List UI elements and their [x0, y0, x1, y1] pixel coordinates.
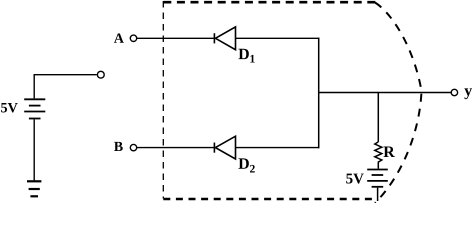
terminal B (open circle) — [130, 144, 136, 150]
diode D1 — [214, 27, 235, 50]
diode D2 — [214, 136, 235, 159]
dashed enclosure right arc — [375, 3, 422, 204]
wire D1 anode to bus — [236, 37, 320, 39]
dashed enclosure bottom edge — [163, 198, 372, 201]
wire B to D2 cathode — [137, 147, 215, 149]
wire bus to output y — [319, 92, 451, 94]
terminal A (open circle) — [130, 35, 136, 41]
junction: output wire to resistor branch — [377, 93, 379, 142]
wire battery negative to ground — [33, 119, 35, 180]
terminal y (open circle) — [451, 89, 457, 95]
wire A to D1 cathode — [137, 37, 215, 39]
dashed enclosure top edge — [163, 1, 376, 4]
terminal (left battery output, open circle) — [97, 71, 104, 78]
ground (left battery) — [27, 181, 41, 196]
wire D2 anode to bus — [236, 147, 320, 149]
node B label — [114, 142, 123, 151]
battery B1 5V (left) — [24, 99, 45, 118]
label D1 — [238, 49, 254, 63]
wire bus (vertical, joins D1 and D2 anodes) — [318, 38, 320, 149]
resistor R — [375, 142, 382, 169]
battery B2 5V (right) — [367, 170, 388, 187]
dashed enclosure left edge — [162, 1, 164, 199]
wire battery B2 negative lead down — [377, 188, 379, 201]
label 5V (left battery value) — [1, 103, 18, 113]
label R — [383, 147, 394, 157]
label D2 — [238, 158, 254, 172]
node A label — [114, 33, 124, 42]
node y label — [464, 88, 472, 99]
label 5V (right battery value) — [346, 174, 364, 184]
wire battery positive to terminal — [34, 75, 97, 99]
